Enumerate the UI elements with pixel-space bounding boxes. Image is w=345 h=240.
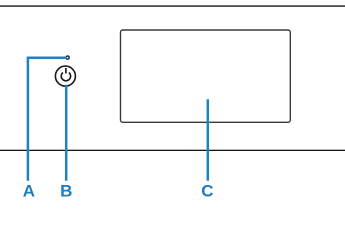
top border line [0,5,345,7]
LED dot A [66,56,69,59]
power button B [55,66,75,86]
screen rectangle C [121,30,291,122]
leader line B [65,85,68,181]
leader line C [207,99,210,181]
svg-text:A: A [23,182,35,201]
leader line A (elbow) [28,58,67,181]
bottom border line [0,150,345,151]
svg-text:B: B [60,182,72,201]
svg-text:C: C [201,182,213,201]
